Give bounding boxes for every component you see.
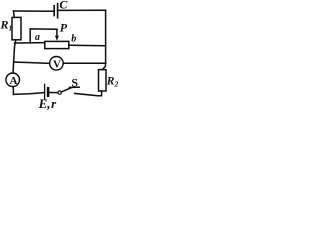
- rheostat slider arrow shaft: [56, 29, 58, 37]
- wire battery to switch pivot: [49, 92, 58, 94]
- switch S blade: [61, 88, 71, 92]
- wire R2 bottom to corner: [98, 91, 102, 96]
- rheostat box: [45, 41, 69, 48]
- svg-text:E,r: E,r: [38, 96, 58, 111]
- svg-text:P: P: [60, 21, 68, 35]
- voltmeter V circle: [50, 57, 64, 71]
- svg-text:V: V: [53, 58, 61, 70]
- svg-text:a: a: [35, 32, 40, 43]
- svg-text:A: A: [10, 75, 18, 87]
- svg-text:R2: R2: [106, 75, 118, 88]
- svg-text:b: b: [71, 34, 76, 45]
- resistor R2 box: [99, 70, 107, 91]
- node a corner riser: [30, 29, 57, 43]
- capacitor C plates: [54, 4, 57, 18]
- wire bottom left from ammeter to battery: [14, 93, 45, 95]
- rheostat slider arrowhead P: [55, 36, 59, 41]
- wire rheostat right to right rail: [69, 44, 106, 47]
- svg-text:C: C: [59, 0, 68, 12]
- battery E,r short thick plate: [47, 88, 50, 96]
- svg-text:S: S: [71, 75, 78, 89]
- wire ammeter bottom: [12, 87, 14, 95]
- wire top-left riser from R1 top: [13, 11, 16, 17]
- wire right rail down to voltmeter junction: [105, 10, 107, 63]
- wire capacitor to top-right corner: [58, 9, 106, 11]
- svg-text:R1: R1: [0, 18, 12, 33]
- wire left rail to voltmeter: [14, 62, 50, 63]
- wire left branch to rheostat left end: [15, 42, 45, 44]
- wire bottom right from switch to corner: [75, 93, 98, 95]
- switch S contact bar: [69, 86, 79, 88]
- wire top left to capacitor: [14, 10, 54, 12]
- battery E,r long plate: [44, 84, 46, 99]
- ammeter A circle: [6, 73, 20, 87]
- wire voltmeter to right rail: [63, 62, 105, 64]
- switch S pivot: [58, 91, 61, 94]
- resistor R1 box: [12, 17, 21, 39]
- wire right rail to R2 top: [102, 63, 105, 69]
- wire left rail R1 bottom to ammeter top: [13, 40, 16, 73]
